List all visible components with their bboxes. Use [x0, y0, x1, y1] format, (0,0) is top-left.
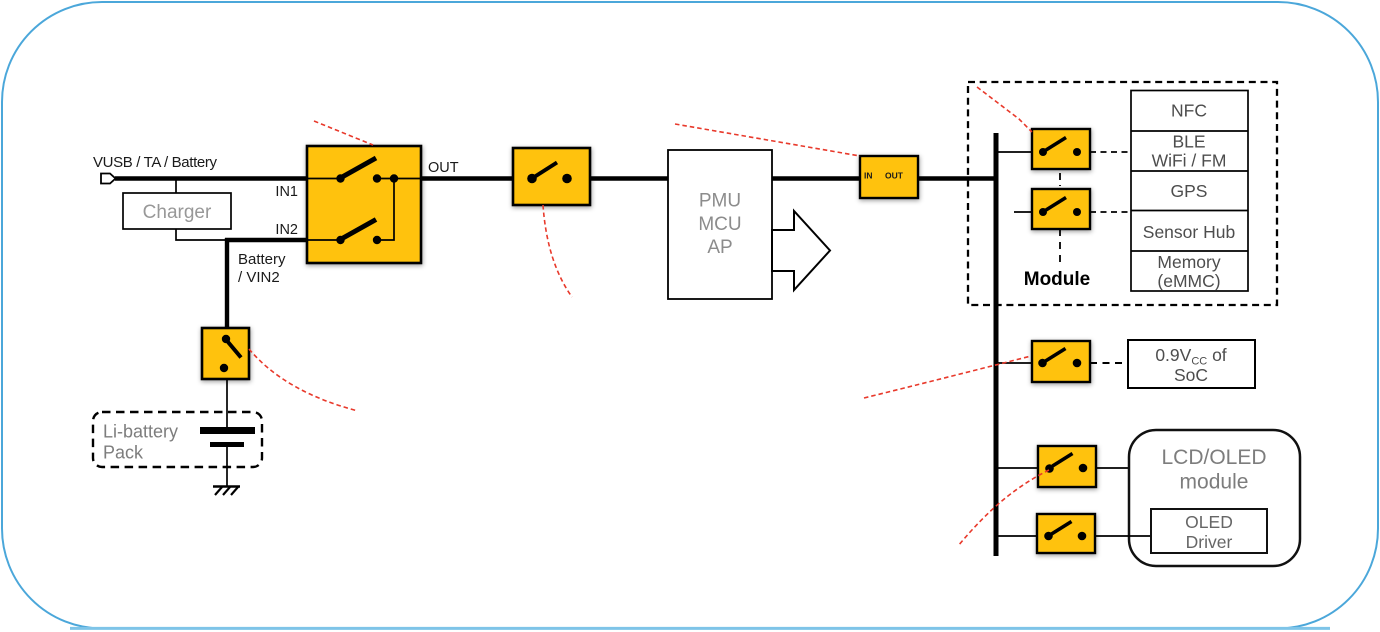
block LCD/OLED module — [1129, 430, 1300, 566]
regulator block IN OUT — [860, 156, 918, 198]
peripheral stack table — [1131, 91, 1248, 292]
svg-text:/ VIN2: / VIN2 — [238, 269, 280, 286]
wire bus to switch S7 — [998, 467, 1038, 469]
block 0.9Vcc of SoC — [1128, 340, 1255, 388]
wire battery to ground — [226, 447, 228, 486]
wire charger top stub — [175, 179, 177, 194]
wire VUSB to switch U1 — [115, 176, 307, 180]
switch S1b IN2 — [307, 239, 337, 241]
wire regulator to bus — [918, 176, 996, 180]
annotation callout 7 — [249, 349, 358, 411]
annotation callout 4 — [977, 87, 1032, 132]
power bus — [994, 133, 999, 556]
svg-text:Charger: Charger — [143, 202, 212, 223]
svg-text:VUSB / TA / Battery: VUSB / TA / Battery — [93, 154, 218, 171]
battery B1 plates — [200, 427, 255, 434]
svg-text:OUT: OUT — [885, 171, 904, 181]
dashed wire S6 to SoC rail — [1090, 362, 1128, 364]
wire bus to switch S8 — [998, 535, 1037, 537]
svg-text:MCU: MCU — [698, 214, 741, 235]
wire PMU to regulator — [772, 176, 860, 180]
svg-text:LCD/OLED: LCD/OLED — [1161, 446, 1266, 469]
wire S7 to LCD module — [1096, 467, 1129, 469]
svg-text:Driver: Driver — [1186, 532, 1233, 552]
switch S1a IN1 — [307, 178, 337, 180]
charger block — [123, 193, 231, 229]
dashed control stub below S5 — [1059, 229, 1061, 264]
block OLED Driver — [1151, 509, 1267, 553]
connector terminal VUSB — [101, 174, 116, 184]
dashed wire S5 to GPS row — [1090, 211, 1131, 213]
annotation callout 6 — [958, 470, 1049, 546]
load switch S3 battery path — [202, 328, 249, 379]
svg-text:AP: AP — [707, 237, 732, 258]
wire stub to switch S5 — [1014, 211, 1032, 213]
Li-battery pack dashed enclosure — [93, 412, 262, 467]
svg-text:Sensor Hub: Sensor Hub — [1143, 222, 1235, 242]
svg-text:IN: IN — [864, 171, 873, 181]
svg-text:NFC: NFC — [1171, 101, 1207, 121]
svg-text:IN2: IN2 — [275, 222, 298, 238]
svg-text:PMU: PMU — [699, 191, 741, 212]
block U2 PMU MCU AP — [668, 150, 772, 299]
svg-text:module: module — [1180, 471, 1249, 494]
svg-text:IN1: IN1 — [275, 184, 298, 200]
wire switch S3 to battery — [226, 379, 228, 428]
svg-text:(eMMC): (eMMC) — [1157, 271, 1220, 291]
annotation callout 3 — [675, 124, 860, 156]
annotation callout 1 — [314, 121, 373, 145]
dashed control link between S4 and S5 — [1059, 173, 1061, 186]
wire S8 to OLED driver — [1095, 535, 1151, 537]
module dashed enclosure — [968, 82, 1277, 305]
wire IN2 thick — [225, 238, 307, 242]
load switch S2 — [513, 148, 590, 205]
load switch S5 — [1032, 189, 1090, 229]
load switch S4 — [1032, 129, 1090, 169]
svg-text:Li-battery: Li-battery — [103, 422, 178, 442]
wire link IN2 contact to OUT node — [377, 179, 394, 241]
svg-text:Memory: Memory — [1157, 252, 1220, 272]
svg-text:WiFi / FM: WiFi / FM — [1152, 151, 1227, 171]
svg-text:SoC: SoC — [1174, 365, 1208, 385]
svg-text:Battery: Battery — [238, 251, 286, 268]
annotation callout 2 — [543, 205, 572, 297]
svg-text:Pack: Pack — [103, 443, 144, 463]
wire S2 to PMU — [590, 176, 668, 180]
annotation callout 5 — [864, 356, 1031, 398]
ground — [213, 487, 240, 496]
wire OUT — [421, 176, 513, 180]
svg-text:BLE: BLE — [1172, 132, 1205, 152]
svg-text:OUT: OUT — [428, 160, 459, 176]
load switch S8 — [1037, 514, 1095, 553]
wire bus to switch S4 — [998, 151, 1032, 153]
load switch S7 — [1038, 446, 1096, 487]
wire battery VIN2 vertical — [225, 238, 229, 329]
power mux switch U1 — [307, 146, 421, 263]
load switch S6 — [1032, 341, 1090, 382]
svg-text:OLED: OLED — [1185, 512, 1233, 532]
dashed wire S4 to BLE row — [1090, 151, 1131, 153]
wire charger bottom stub — [176, 229, 227, 240]
wire bus to switch S6 — [998, 362, 1032, 364]
arrow from PMU — [772, 211, 830, 290]
svg-text:GPS: GPS — [1171, 181, 1208, 201]
svg-text:Module: Module — [1024, 269, 1091, 290]
